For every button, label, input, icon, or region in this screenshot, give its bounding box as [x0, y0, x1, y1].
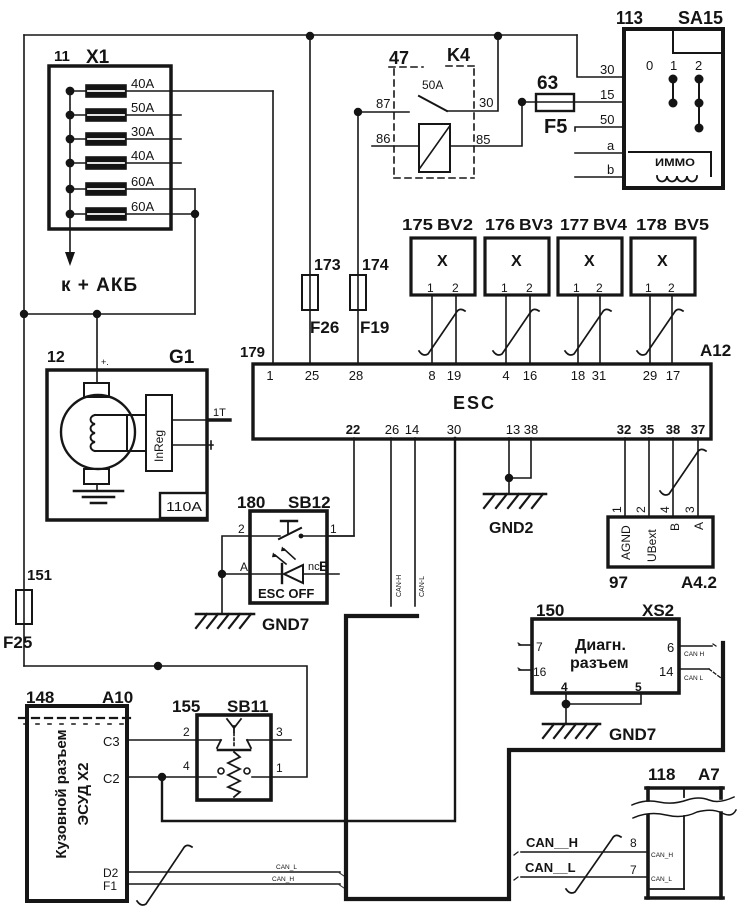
svg-text:15: 15 [600, 87, 614, 102]
G1 rating 110A [160, 493, 207, 518]
ground GND7 (XS2) [543, 723, 600, 726]
wire: pin 85 lead to F5 node [450, 102, 522, 146]
node: GND2 junction [505, 474, 513, 482]
sensor BV4 [558, 238, 622, 295]
svg-text:ЭСУД Х2: ЭСУД Х2 [75, 762, 92, 825]
voltage regulator InReg [146, 395, 172, 471]
ground inside G1 [96, 484, 98, 491]
wire: ignition 15 feed through F5 [522, 101, 624, 103]
node: X1 bus junction dots [66, 87, 75, 96]
wire: CAN_L to A7 pin 7 [521, 876, 648, 878]
svg-text:47: 47 [389, 48, 409, 68]
SB11 upper contacts [197, 739, 221, 741]
wire: BV5 pin 2 to ESC pin 17 [671, 295, 673, 364]
svg-text:1: 1 [573, 281, 580, 295]
wire: 60A fuses join to battery rail [194, 189, 196, 314]
svg-text:11: 11 [54, 48, 70, 65]
sensor BV5 [631, 238, 695, 295]
node: XS2 ground junction [562, 700, 571, 709]
wire: battery rail to generator and frame [24, 313, 195, 315]
svg-text:CAN_H: CAN_H [272, 876, 294, 883]
fuse X1-3 30A [70, 138, 86, 140]
svg-text:ИММО: ИММО [655, 157, 696, 169]
fuse X1-6 60A [70, 213, 86, 215]
fuse X1-2 50A [70, 114, 86, 116]
node: rail junction to generator G1 [93, 310, 101, 318]
svg-text:CAN_L: CAN_L [276, 864, 297, 871]
svg-text:2: 2 [668, 281, 675, 295]
wire: BV4 pin 1 to ESC pin 18 [577, 295, 579, 364]
svg-text:60A: 60A [131, 199, 154, 214]
wire: CAN bus harness (thick) [346, 616, 723, 899]
svg-text:30A: 30A [131, 124, 154, 139]
node: relay 87 / F19 corner [354, 108, 362, 116]
svg-text:AGND: AGND [619, 525, 633, 560]
svg-text:b: b [607, 162, 614, 177]
fuse X1-5 60A [70, 188, 86, 190]
svg-text:8: 8 [630, 836, 637, 850]
G1 winding coil [91, 415, 95, 451]
wire: ESC pin 26 stub [390, 438, 392, 606]
svg-text:31: 31 [592, 368, 606, 383]
wire: ESC pin 30 to A10 C2 node [162, 438, 455, 821]
twisted pair marker BV2 [419, 309, 465, 355]
wire: SB12 to GND7 [221, 574, 223, 614]
wire: F26 branch down to ESC pin 25 [309, 36, 311, 364]
svg-text:50A: 50A [131, 100, 154, 115]
node: F5 / relay 85 junction [518, 98, 526, 106]
svg-text:X: X [657, 253, 668, 270]
SB11 lower contacts [197, 776, 216, 778]
wire: BV2 pin 2 to ESC pin 19 [455, 295, 457, 364]
node: junction of both 60A fuses [191, 210, 199, 218]
wire: pin 30 lead up to rail [447, 36, 498, 111]
svg-text:к + АКБ: к + АКБ [61, 275, 138, 296]
svg-text:50A: 50A [422, 78, 443, 92]
svg-text:CAN H: CAN H [684, 651, 705, 658]
X1 internal bus wire [69, 91, 71, 252]
SA15 corner notch [673, 31, 721, 53]
node: top rail / relay contact riser [494, 32, 502, 40]
svg-text:1: 1 [501, 281, 508, 295]
wire: G1 output lower [172, 444, 213, 446]
switch SB11 (diagnostic request) [197, 715, 271, 800]
svg-text:3: 3 [683, 506, 697, 513]
wire: stator to regulator links [95, 414, 146, 416]
wire: BV3 pin 2 to ESC pin 16 [529, 295, 531, 364]
wire: F25 feed to SB11 pin 1 [24, 666, 307, 777]
svg-text:A: A [692, 522, 706, 530]
svg-text:UBext: UBext [645, 529, 659, 562]
svg-text:28: 28 [349, 368, 363, 383]
svg-text:2: 2 [452, 281, 459, 295]
svg-text:16: 16 [533, 665, 547, 679]
svg-text:BV4: BV4 [593, 217, 627, 234]
svg-text:B: B [668, 523, 682, 531]
twisted pair marker D2/F1 [137, 845, 192, 905]
svg-text:2: 2 [695, 58, 702, 73]
svg-text:4: 4 [658, 506, 672, 513]
svg-text:CAN_L: CAN_L [651, 876, 672, 883]
svg-text:4: 4 [183, 759, 190, 773]
svg-text:60A: 60A [131, 174, 154, 189]
SA15 contact column 1 [672, 79, 674, 103]
svg-text:2: 2 [596, 281, 603, 295]
svg-text:C2: C2 [103, 771, 120, 786]
svg-text:110A: 110A [166, 499, 202, 514]
svg-text:35: 35 [640, 422, 654, 437]
svg-text:F19: F19 [360, 318, 389, 337]
SB12 pushbutton actuator [281, 520, 297, 522]
wire: ESC pin 13 to GND2 [508, 438, 510, 494]
SA15 immobiliser coil [629, 152, 711, 176]
sensor BV2 [411, 238, 475, 295]
svg-text:1: 1 [645, 281, 652, 295]
wire: left frame vertical (battery feed to F25) [23, 35, 25, 666]
wire: ESC pin 22 to SB12 pin 1 [327, 438, 354, 536]
sensor BV3 [485, 238, 549, 295]
SB12 LED arrows [284, 549, 295, 559]
svg-text:87: 87 [376, 96, 390, 111]
wire: CAN_H to A7 pin 8 [521, 851, 648, 853]
svg-text:177: 177 [560, 217, 589, 234]
svg-text:4: 4 [561, 680, 568, 694]
svg-text:CAN__H: CAN__H [526, 835, 578, 850]
svg-text:A10: A10 [102, 688, 133, 707]
relay contact blade [419, 96, 447, 111]
svg-text:SB12: SB12 [288, 493, 331, 512]
wire: ESC pin 14 stub [414, 438, 416, 606]
svg-text:5: 5 [635, 680, 642, 694]
wire: BV5 pin 1 to ESC pin 29 [649, 295, 651, 364]
svg-text:86: 86 [376, 131, 390, 146]
twisted pair marker BV4 [565, 309, 611, 355]
svg-text:38: 38 [666, 422, 680, 437]
wire: rail down into G1 plus terminal [96, 314, 98, 383]
svg-text:14: 14 [405, 422, 419, 437]
svg-text:16: 16 [523, 368, 537, 383]
svg-text:4: 4 [502, 368, 509, 383]
twisted pair marker BV5 [637, 309, 683, 355]
ground GND7 (SB12) [196, 613, 254, 616]
svg-text:2: 2 [183, 725, 190, 739]
svg-text:A4.2: A4.2 [681, 573, 717, 592]
wire: F19 branch down to ESC pin 28 [357, 112, 359, 364]
G1 plus terminal [84, 383, 109, 397]
svg-text:ESC OFF: ESC OFF [258, 586, 314, 601]
svg-text:X1: X1 [86, 47, 110, 68]
relay coil [419, 124, 450, 172]
ignition switch SA15 [162, 8, 731, 821]
svg-text:a: a [607, 138, 615, 153]
wire: riser from top rail into SA15 pin 30 [577, 35, 624, 77]
svg-text:F26: F26 [310, 318, 339, 337]
twisted pair marker A4.2 [660, 449, 706, 495]
svg-text:F1: F1 [103, 879, 117, 893]
svg-text:Кузовной разъем: Кузовной разъем [53, 729, 70, 858]
svg-text:разъем: разъем [570, 655, 629, 672]
node: pin2/pinA ground junction [218, 570, 226, 578]
svg-text:180: 180 [237, 493, 265, 512]
svg-text:13: 13 [506, 422, 520, 437]
svg-text:29: 29 [643, 368, 657, 383]
svg-text:A7: A7 [698, 765, 720, 784]
generator G1 [47, 370, 207, 520]
G1 stator circle [61, 395, 135, 469]
switch SB12 (ESC OFF) [250, 511, 327, 603]
svg-text:X: X [584, 253, 595, 270]
fuse X1-4 40A [70, 162, 86, 164]
svg-text:63: 63 [537, 73, 558, 94]
svg-text:ESC: ESC [453, 393, 496, 413]
wire: 40A fuse feed down to ESC pin 1 [272, 91, 274, 364]
svg-text:D2: D2 [103, 866, 119, 880]
svg-text:14: 14 [659, 664, 673, 679]
svg-text:175: 175 [402, 217, 433, 234]
svg-text:12: 12 [47, 349, 65, 366]
svg-text:40A: 40A [131, 148, 154, 163]
fuse X1-1 40A [70, 90, 86, 92]
svg-text:38: 38 [524, 422, 538, 437]
svg-text:2: 2 [634, 506, 648, 513]
svg-text:X: X [511, 253, 522, 270]
fuse box X1 [49, 66, 171, 229]
svg-text:50: 50 [600, 112, 614, 127]
twisted pair marker CAN [566, 835, 621, 893]
svg-text:8: 8 [428, 368, 435, 383]
svg-text:Диагн.: Диагн. [575, 637, 626, 654]
svg-text:F25: F25 [3, 633, 32, 652]
wire: ESC pin 32 to A4.2 pin 1 [624, 438, 626, 517]
svg-text:6: 6 [667, 640, 674, 655]
SB12 LED diode [250, 573, 282, 575]
svg-text:30: 30 [479, 95, 493, 110]
svg-text:1: 1 [266, 368, 273, 383]
svg-text:22: 22 [346, 422, 360, 437]
svg-text:176: 176 [485, 217, 515, 234]
A10 harness break dashes [19, 717, 131, 719]
svg-text:A: A [240, 560, 248, 574]
svg-text:173: 173 [314, 257, 341, 274]
svg-text:97: 97 [609, 573, 628, 592]
svg-text:CAN L: CAN L [684, 675, 704, 682]
svg-text:178: 178 [636, 217, 667, 234]
svg-text:30: 30 [447, 422, 461, 437]
wire: pin 86 lead [372, 145, 419, 147]
SB11 button actuator [227, 719, 241, 732]
svg-text:3: 3 [276, 725, 283, 739]
node: rail junction at left frame [20, 310, 28, 318]
svg-text:174: 174 [362, 257, 389, 274]
svg-text:BV3: BV3 [519, 217, 553, 234]
node: C2 junction to ESC pin 30 [158, 773, 166, 781]
svg-text:1: 1 [610, 506, 624, 513]
svg-text:B: B [319, 558, 329, 574]
A7 harness break waves [632, 797, 734, 805]
SB12 pin B stub [303, 573, 339, 575]
A7 internal divider [683, 790, 685, 797]
svg-text:2: 2 [238, 522, 245, 536]
svg-text:CAN-L: CAN-L [419, 576, 426, 597]
svg-text:1: 1 [670, 58, 677, 73]
G1 minus terminal [84, 469, 109, 484]
fuse F26 [302, 275, 318, 310]
SB11 pin 3 stub [271, 739, 291, 741]
wire: top +12V rail [24, 34, 577, 36]
diagnostic connector XS2 [532, 619, 679, 693]
relay K4 dashed outline [389, 66, 479, 178]
connector A4.2 [608, 517, 713, 567]
node: dot on F25 feed line [154, 662, 162, 670]
wire: ESC pin 38 to GND2 [509, 438, 531, 478]
svg-text:148: 148 [26, 688, 54, 707]
svg-text:K4: K4 [447, 45, 470, 65]
svg-text:32: 32 [617, 422, 631, 437]
svg-text:GND7: GND7 [609, 725, 656, 744]
svg-text:G1: G1 [169, 347, 195, 368]
svg-text:37: 37 [691, 422, 705, 437]
wire: ESC pin 35 to A4.2 pin 2 [648, 438, 650, 517]
svg-text:155: 155 [172, 697, 200, 716]
svg-text:179: 179 [240, 344, 265, 361]
fuse F19 [350, 275, 366, 310]
svg-text:1: 1 [276, 761, 283, 775]
svg-text:SB11: SB11 [227, 697, 269, 716]
wire: ESC pin 38 to A4.2 pin 4 [672, 438, 674, 517]
wire: G1 output D [172, 419, 209, 421]
svg-text:1: 1 [330, 522, 337, 536]
svg-text:BV2: BV2 [437, 217, 473, 234]
node: top rail / F26 branch [306, 32, 314, 40]
svg-text:CAN-H: CAN-H [396, 575, 403, 597]
svg-text:SA15: SA15 [678, 8, 723, 28]
svg-text:151: 151 [27, 567, 52, 584]
ground GND2 [484, 493, 546, 496]
ECU block ESC A12 [253, 364, 711, 439]
svg-text:150: 150 [536, 601, 564, 620]
svg-text:40A: 40A [131, 76, 154, 91]
svg-text:XS2: XS2 [642, 601, 674, 620]
wire: arrow lead to battery [65, 252, 75, 266]
SB11 resistor [228, 752, 240, 797]
svg-text:2: 2 [526, 281, 533, 295]
svg-text:GND2: GND2 [489, 520, 534, 537]
svg-text:A12: A12 [700, 341, 731, 360]
svg-text:1T: 1T [213, 407, 226, 419]
fuse F5 [536, 94, 574, 111]
twisted pair marker BV3 [493, 309, 539, 355]
svg-text:18: 18 [571, 368, 585, 383]
SB12 switch contact [250, 535, 280, 537]
svg-text:X: X [437, 253, 448, 270]
svg-text:85: 85 [476, 132, 490, 147]
connector A10 (body harness X2) [27, 706, 127, 901]
wire: BV2 pin 1 to ESC pin 8 [431, 295, 433, 364]
svg-text:17: 17 [666, 368, 680, 383]
SA15 contact column 2 [698, 79, 700, 128]
svg-text:GND7: GND7 [262, 615, 309, 634]
wire: BV4 pin 2 to ESC pin 31 [599, 295, 601, 364]
svg-text:30: 30 [600, 62, 614, 77]
fuse F25 [16, 590, 32, 624]
svg-text:0: 0 [646, 58, 653, 73]
wire: BV3 pin 1 to ESC pin 4 [505, 295, 507, 364]
svg-text:InReg: InReg [152, 430, 166, 462]
svg-text:25: 25 [305, 368, 319, 383]
svg-text:+.: +. [101, 357, 109, 367]
svg-text:113: 113 [616, 8, 643, 28]
svg-text:C3: C3 [103, 734, 120, 749]
svg-text:BV5: BV5 [674, 217, 709, 234]
svg-text:F5: F5 [544, 116, 567, 138]
wire: pin 87 lead [358, 111, 409, 113]
svg-text:1: 1 [427, 281, 434, 295]
svg-text:26: 26 [385, 422, 399, 437]
svg-text:118: 118 [648, 765, 675, 784]
svg-text:19: 19 [447, 368, 461, 383]
svg-text:7: 7 [630, 863, 637, 877]
svg-text:7: 7 [536, 640, 543, 654]
svg-text:CAN__L: CAN__L [525, 860, 576, 875]
svg-text:CAN_H: CAN_H [651, 852, 673, 859]
wire: ESC pin 37 to A4.2 pin 3 [697, 438, 699, 517]
